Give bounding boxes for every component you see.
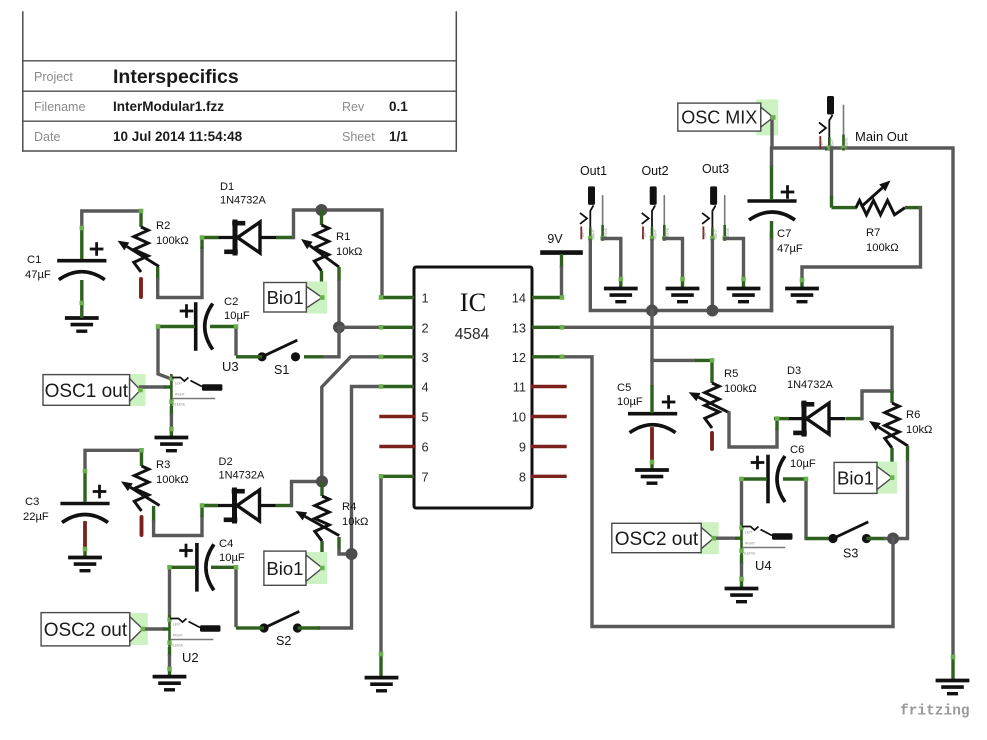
wire [168, 567, 171, 617]
diode D1 [202, 181, 294, 253]
switch S1 [250, 341, 300, 377]
svg-text:LEFT: LEFT [175, 382, 183, 386]
label Bio1 [264, 282, 327, 314]
ground [606, 289, 636, 302]
svg-text:1N4732A: 1N4732A [787, 379, 834, 391]
wire [170, 406, 173, 438]
wire [725, 239, 744, 289]
svg-text:SLEEVE: SLEEVE [171, 644, 183, 648]
wire [168, 647, 171, 677]
svg-text:Rev: Rev [342, 100, 365, 114]
wire [236, 567, 252, 628]
svg-text:D1: D1 [220, 181, 234, 193]
svg-text:U4: U4 [755, 558, 772, 573]
svg-text:10kΩ: 10kΩ [906, 424, 932, 436]
svg-text:10µF: 10µF [790, 458, 816, 470]
svg-text:47µF: 47µF [777, 243, 803, 255]
svg-text:OSC2 out: OSC2 out [615, 529, 699, 550]
svg-text:1N4732A: 1N4732A [220, 195, 267, 207]
IC U1 4584 [414, 267, 532, 508]
svg-text:S3: S3 [843, 547, 858, 561]
svg-text:100kΩ: 100kΩ [866, 242, 899, 254]
svg-text:Filename: Filename [34, 100, 85, 114]
svg-text:Out2: Out2 [641, 164, 668, 178]
jack U2 [167, 615, 220, 665]
svg-text:LEFT: LEFT [703, 230, 707, 238]
capacitor C5 [617, 311, 676, 471]
svg-text:4: 4 [422, 380, 429, 395]
resistor R7 [832, 181, 921, 255]
wire [304, 327, 339, 357]
wire [560, 254, 563, 298]
pin 5 [381, 415, 414, 418]
wire [664, 239, 682, 289]
svg-text:C2: C2 [224, 296, 238, 308]
wire [562, 326, 892, 329]
svg-text:Project: Project [34, 70, 73, 84]
node A [316, 204, 328, 216]
ground [637, 470, 667, 483]
svg-text:InterModular1.fzz: InterModular1.fzz [113, 99, 224, 114]
svg-text:R4: R4 [342, 501, 356, 513]
wire [322, 357, 381, 482]
label Bio1 [264, 551, 327, 585]
svg-text:Bio1: Bio1 [837, 468, 874, 489]
node F [706, 305, 718, 317]
svg-text:9V: 9V [547, 232, 563, 246]
title block [23, 12, 457, 151]
svg-text:10µF: 10µF [617, 396, 643, 408]
svg-text:10µF: 10µF [224, 310, 250, 322]
svg-text:U2: U2 [182, 650, 199, 665]
svg-text:2: 2 [422, 320, 429, 335]
svg-text:SLEEVE: SLEEVE [743, 552, 755, 556]
svg-text:OSC2 out: OSC2 out [44, 620, 128, 641]
pin 7 [381, 475, 414, 478]
ground [156, 438, 186, 451]
svg-text:IC: IC [460, 287, 487, 317]
jack Out2 [641, 164, 669, 241]
wire [650, 241, 653, 311]
svg-text:47µF: 47µF [25, 269, 51, 281]
svg-text:12: 12 [512, 350, 526, 365]
svg-text:0.1: 0.1 [389, 99, 408, 114]
ground [70, 558, 100, 571]
node E [646, 305, 658, 317]
diode D3 [774, 365, 862, 434]
svg-text:LEFT: LEFT [173, 623, 181, 627]
svg-text:4584: 4584 [455, 326, 490, 343]
svg-text:11: 11 [513, 380, 526, 395]
svg-text:14: 14 [512, 291, 526, 306]
svg-text:OSC MIX: OSC MIX [681, 108, 757, 128]
ground [938, 681, 968, 694]
capacitor C4 [170, 538, 245, 590]
resistor R1 [301, 210, 362, 296]
switch S2 [252, 612, 320, 648]
power 9V [543, 232, 581, 253]
diode D2 [202, 456, 292, 521]
svg-text:R1: R1 [336, 231, 350, 243]
pin 13 [532, 326, 562, 329]
svg-text:100kΩ: 100kΩ [156, 474, 189, 486]
wire [603, 239, 621, 289]
wire [337, 267, 340, 327]
wire [590, 232, 771, 311]
svg-text:1/1: 1/1 [389, 129, 408, 144]
resistor R2 [118, 211, 189, 297]
label Bio1 [834, 462, 897, 494]
wire [158, 249, 202, 298]
wire [82, 211, 141, 228]
svg-text:LEFT: LEFT [820, 139, 824, 147]
svg-text:9: 9 [519, 440, 526, 455]
svg-text:R5: R5 [724, 368, 738, 380]
wire [652, 359, 712, 362]
svg-text:100kΩ: 100kΩ [156, 235, 189, 247]
node D [346, 548, 358, 560]
jack Out3 [702, 162, 730, 241]
wire [714, 537, 742, 540]
pin 10 [532, 415, 565, 418]
svg-text:OSC1 out: OSC1 out [45, 381, 129, 402]
pin 4 [381, 385, 414, 388]
svg-text:7: 7 [422, 469, 429, 484]
pin 11 [532, 385, 565, 388]
wire [320, 387, 381, 629]
wire [143, 627, 170, 630]
svg-text:R3: R3 [156, 459, 170, 471]
svg-text:RIGHT: RIGHT [175, 393, 185, 397]
wire [893, 446, 908, 539]
svg-text:C3: C3 [25, 496, 39, 508]
wire [339, 326, 381, 329]
capacitor C6 [743, 444, 816, 502]
wire [772, 117, 953, 680]
fritzing watermark [900, 704, 970, 720]
pin 3 [381, 355, 414, 358]
svg-text:13: 13 [512, 320, 526, 335]
svg-text:C7: C7 [777, 228, 791, 240]
svg-text:S2: S2 [276, 634, 291, 648]
ground [727, 589, 757, 602]
svg-text:10: 10 [512, 410, 526, 425]
pin 9 [532, 445, 565, 448]
wire [890, 327, 893, 391]
svg-text:C6: C6 [790, 444, 804, 456]
svg-text:5: 5 [422, 410, 429, 425]
capacitor C2 [160, 296, 250, 350]
label OSC2 out [41, 613, 148, 646]
svg-text:SLEEVE: SLEEVE [173, 403, 185, 407]
svg-text:100kΩ: 100kΩ [724, 383, 757, 395]
svg-text:Sheet: Sheet [342, 130, 375, 144]
svg-text:Out3: Out3 [702, 162, 729, 176]
svg-text:LEFT: LEFT [745, 531, 753, 535]
svg-text:RIGHT: RIGHT [173, 634, 183, 638]
ground [729, 289, 759, 302]
ground [668, 289, 698, 302]
svg-text:Date: Date [34, 130, 60, 144]
resistor R3 [121, 450, 189, 535]
ground [67, 305, 97, 331]
resistor R6 [869, 391, 932, 476]
svg-text:1N4732A: 1N4732A [219, 470, 266, 482]
resistor R5 [689, 360, 757, 449]
wire [158, 327, 171, 380]
capacitor C3 [23, 471, 108, 557]
svg-text:C1: C1 [27, 254, 41, 266]
svg-text:10kΩ: 10kΩ [342, 516, 368, 528]
svg-text:fritzing: fritzing [900, 704, 970, 720]
wire [562, 357, 893, 627]
jack Out1 [580, 164, 608, 241]
pin 8 [532, 475, 565, 478]
wire [141, 385, 172, 388]
svg-text:LEFT: LEFT [643, 230, 647, 238]
wire [862, 391, 892, 419]
wire [294, 210, 322, 238]
svg-text:Interspecifics: Interspecifics [113, 66, 239, 88]
wire [322, 210, 383, 298]
wire [85, 450, 142, 471]
capacitor C1 [25, 227, 105, 305]
wire [729, 413, 777, 447]
pin 2 [381, 326, 414, 329]
svg-text:R7: R7 [866, 227, 880, 239]
node G [887, 533, 899, 545]
svg-text:Bio1: Bio1 [267, 287, 304, 308]
svg-text:U3: U3 [222, 359, 239, 374]
wire [80, 115, 956, 671]
label OSC2 out [612, 522, 719, 554]
ground [367, 678, 397, 691]
jack U4 [739, 523, 792, 573]
pin 14 [532, 296, 562, 299]
node B [333, 321, 345, 333]
svg-text:RIGHT: RIGHT [745, 542, 755, 546]
wire [292, 482, 323, 506]
svg-text:8: 8 [519, 469, 526, 484]
svg-text:C4: C4 [219, 538, 233, 550]
svg-text:10µF: 10µF [219, 552, 245, 564]
svg-text:Out1: Out1 [580, 164, 607, 178]
svg-text:D3: D3 [787, 365, 801, 377]
svg-text:3: 3 [422, 350, 429, 365]
node C [316, 476, 328, 488]
label OSC MIX [678, 99, 778, 135]
svg-text:Bio1: Bio1 [266, 558, 303, 579]
svg-text:R6: R6 [906, 409, 920, 421]
svg-text:R2: R2 [156, 220, 170, 232]
svg-text:22µF: 22µF [23, 511, 49, 523]
resistor R4 [295, 482, 368, 567]
svg-text:6: 6 [422, 440, 429, 455]
svg-text:10kΩ: 10kΩ [336, 246, 362, 258]
pin 1 [381, 296, 414, 299]
jack Main Out [819, 96, 908, 151]
jack U3 [169, 359, 238, 407]
wire [154, 506, 202, 536]
svg-text:LEFT: LEFT [581, 230, 585, 238]
ground [155, 677, 185, 690]
wire [802, 208, 921, 289]
pin 12 [532, 355, 562, 358]
wire [740, 555, 743, 589]
wire [740, 479, 743, 523]
wire [711, 241, 714, 311]
pin 6 [381, 445, 414, 448]
svg-text:Main Out: Main Out [855, 129, 908, 144]
wire [236, 327, 250, 357]
label OSC1 out [43, 374, 146, 406]
switch S3 [828, 523, 893, 561]
svg-text:1: 1 [422, 291, 429, 306]
wire [379, 476, 382, 677]
wire [830, 148, 833, 208]
svg-text:D2: D2 [219, 456, 233, 468]
svg-text:C5: C5 [617, 382, 631, 394]
svg-text:S1: S1 [274, 363, 289, 377]
wire [339, 537, 352, 554]
wire [826, 148, 843, 151]
ground [787, 289, 817, 302]
wire [806, 479, 833, 539]
svg-text:10 Jul 2014 11:54:48: 10 Jul 2014 11:54:48 [113, 129, 243, 144]
capacitor C7 [749, 148, 803, 311]
